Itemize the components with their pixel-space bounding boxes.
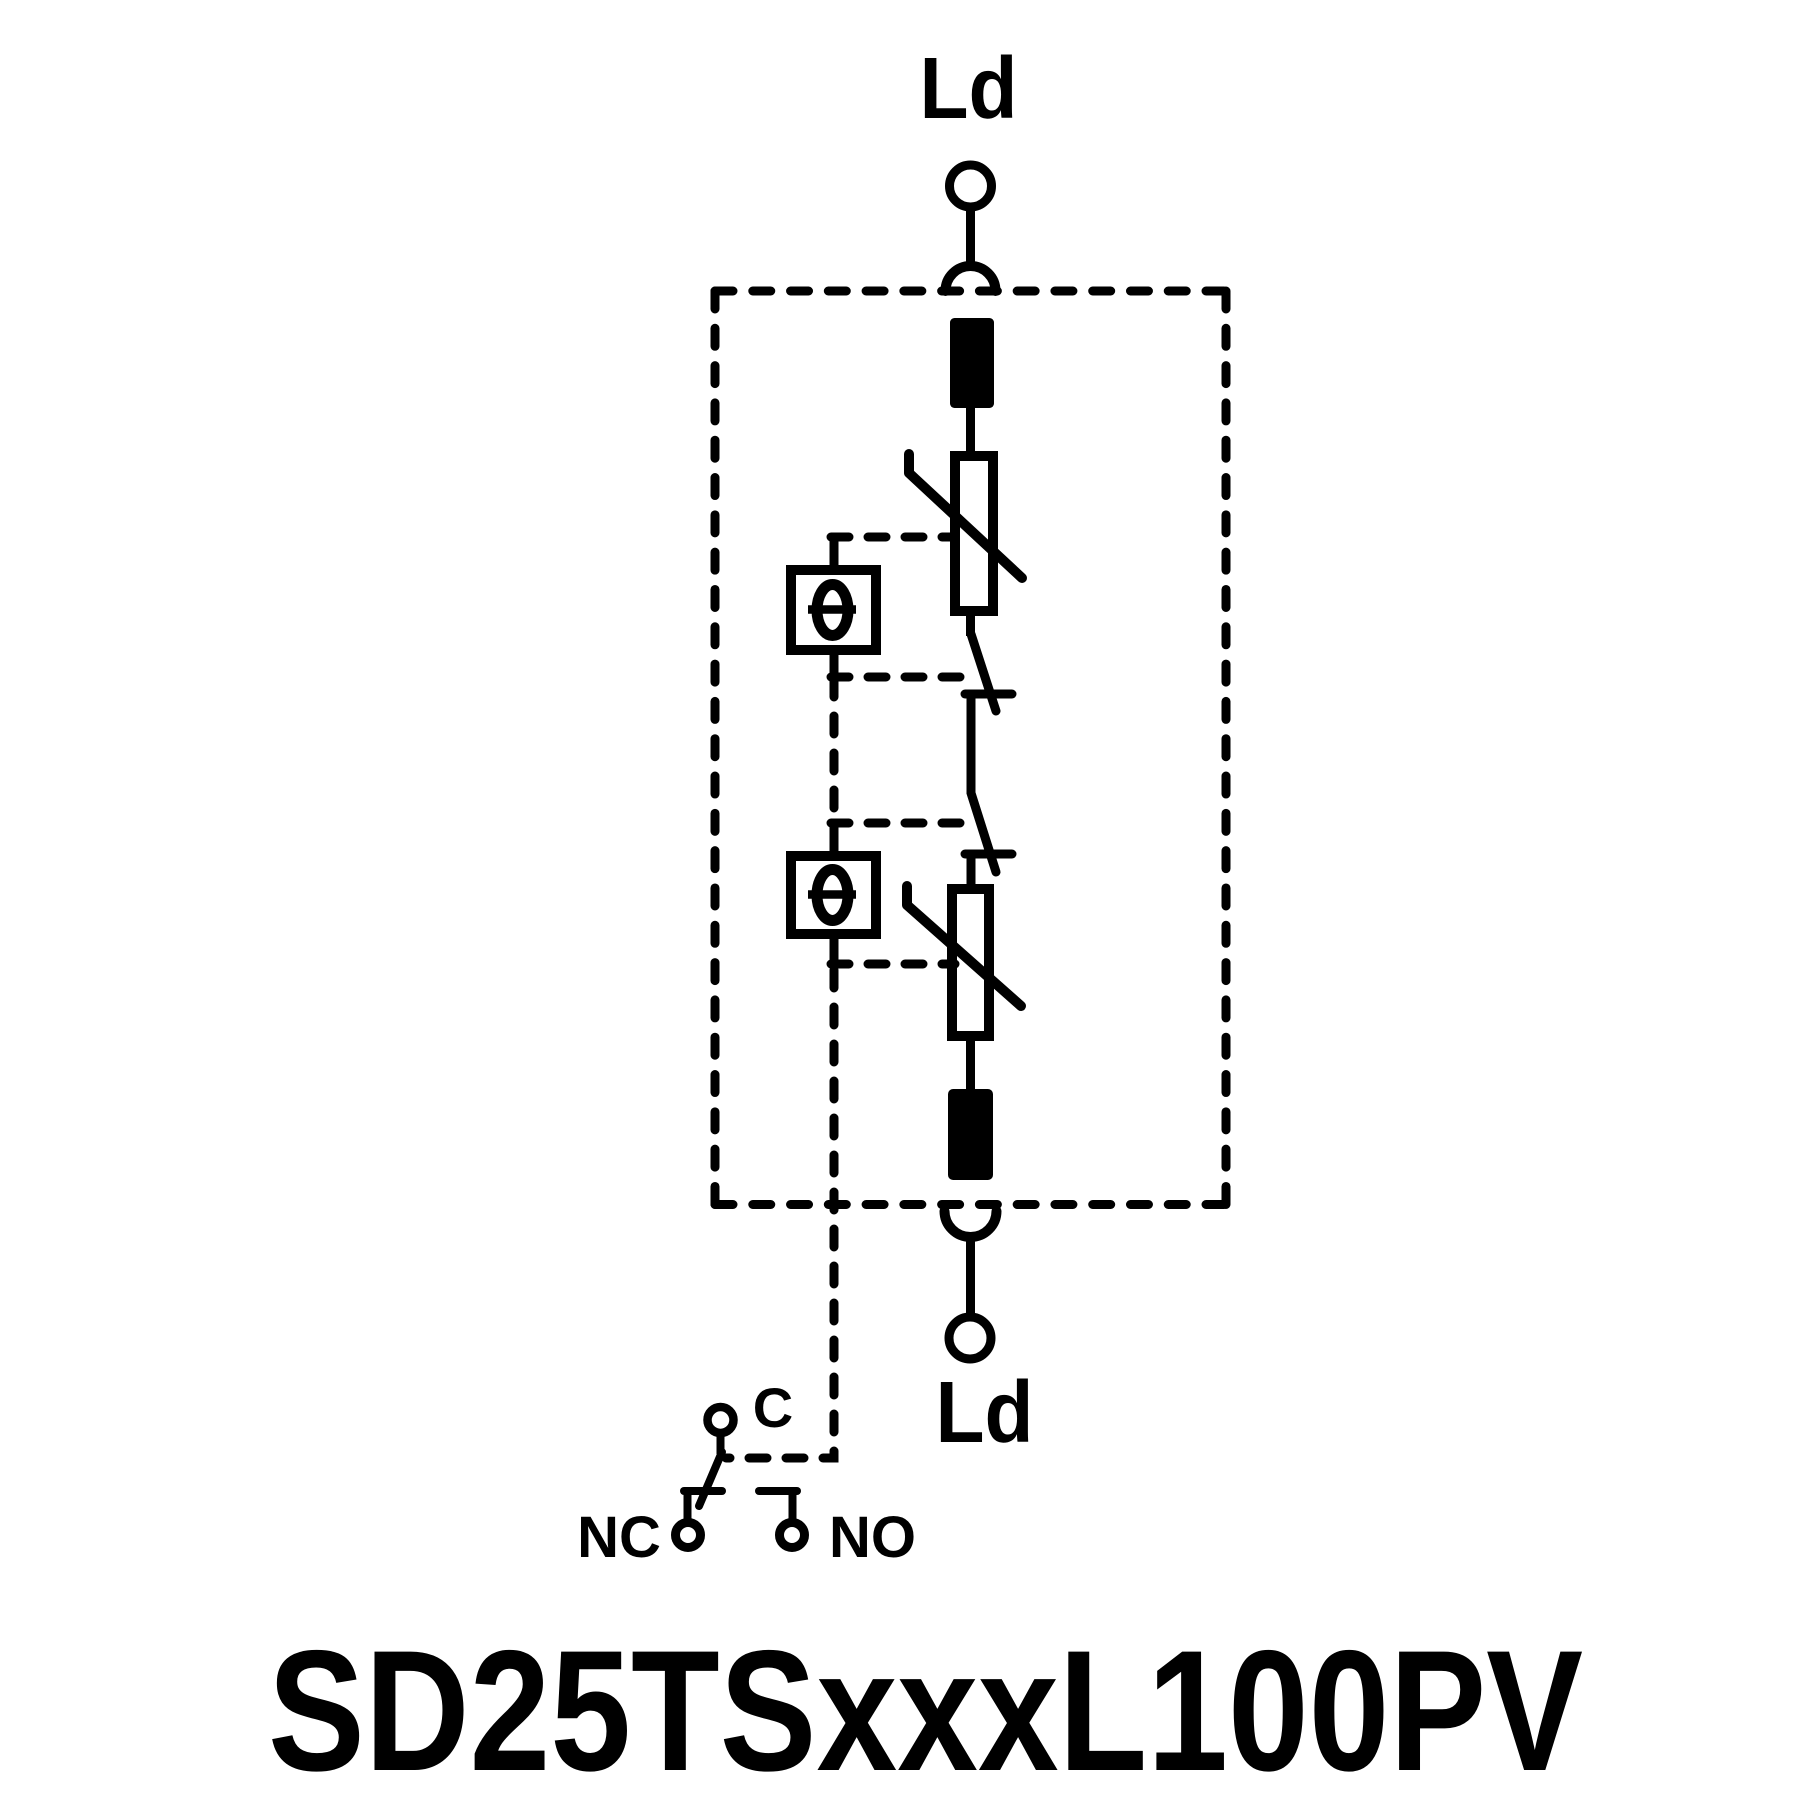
svg-text:NO: NO xyxy=(829,1505,916,1570)
svg-text:Ld: Ld xyxy=(920,40,1018,137)
svg-text:Ld: Ld xyxy=(936,1364,1034,1461)
svg-text:C: C xyxy=(753,1376,793,1439)
svg-text:SD25TSxxxL100PV: SD25TSxxxL100PV xyxy=(268,1615,1583,1801)
svg-text:NC: NC xyxy=(577,1505,661,1570)
